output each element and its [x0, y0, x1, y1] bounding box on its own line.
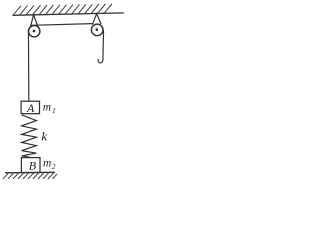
wire: horizontal string between pulleys: [32, 24, 93, 26]
right pulley bracket: [92, 14, 101, 25]
left pulley wheel: [29, 26, 40, 37]
svg-text:k: k: [41, 129, 47, 144]
wire: left string down to block A: [27, 30, 29, 102]
spring k: [22, 115, 37, 158]
ground (floor): [5, 171, 55, 174]
floor hatching: [3, 173, 57, 179]
svg-text:2: 2: [52, 162, 56, 171]
left pulley axle: [33, 30, 36, 33]
svg-text:B: B: [29, 158, 37, 172]
svg-text:A: A: [26, 101, 35, 115]
svg-text:1: 1: [52, 106, 56, 115]
ceiling: [13, 13, 124, 15]
block B: [21, 158, 40, 173]
svg-text:m: m: [43, 102, 51, 114]
hook at end of string: [98, 57, 103, 63]
left pulley bracket: [30, 15, 38, 29]
wire: right string down from pulley: [102, 28, 104, 58]
right pulley wheel: [91, 24, 103, 36]
right pulley axle: [95, 28, 98, 31]
block A: [21, 101, 39, 114]
ceiling hatching: [13, 4, 112, 16]
svg-text:m: m: [43, 157, 51, 169]
